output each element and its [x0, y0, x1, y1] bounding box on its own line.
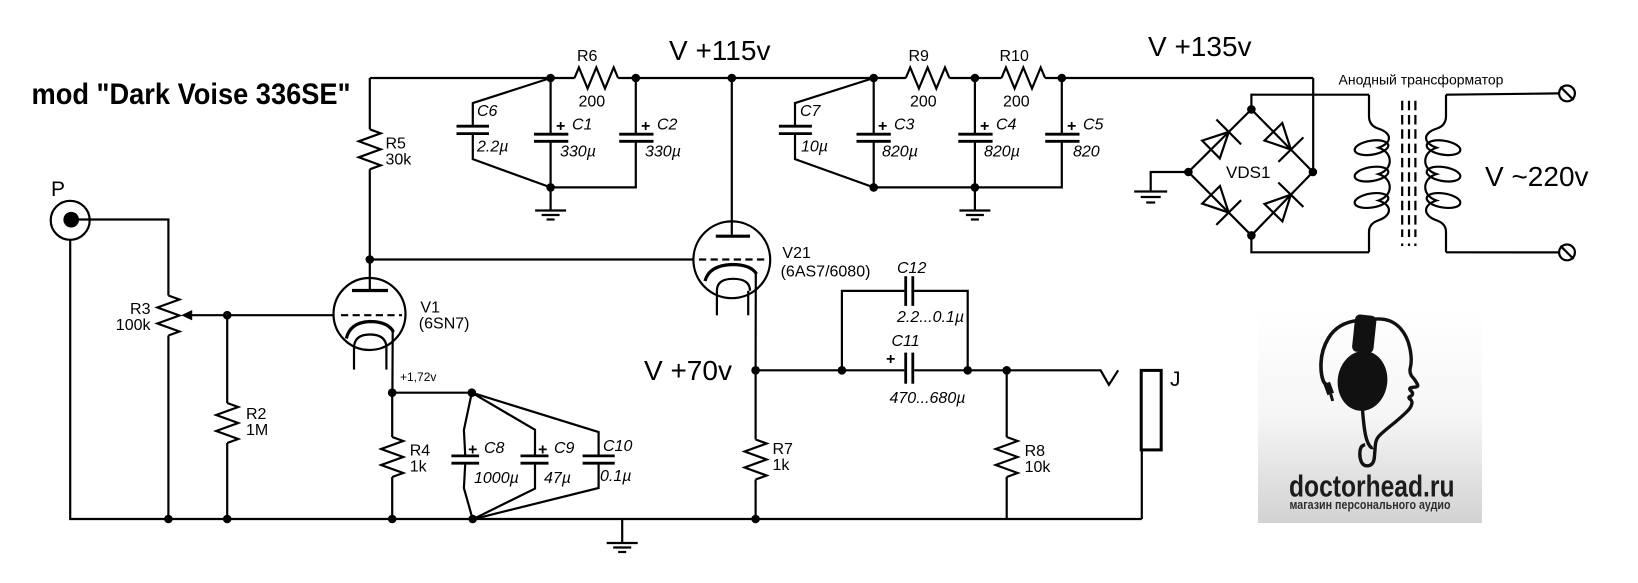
- svg-text:P: P: [51, 178, 65, 201]
- svg-text:C10: C10: [603, 438, 632, 455]
- logo plug: [1327, 383, 1331, 394]
- svg-text:V21: V21: [782, 245, 811, 262]
- svg-text:+1,72v: +1,72v: [400, 370, 436, 384]
- capacitor C9 plates: [521, 456, 549, 463]
- transformer primary petal 1: [1354, 138, 1390, 157]
- node dot V1 cathode: [388, 388, 397, 397]
- resistor R9: [906, 68, 950, 89]
- svg-text:C9: C9: [554, 440, 575, 457]
- wire fan top to C10: [472, 393, 599, 455]
- node dot C3 bottom: [869, 183, 878, 192]
- ground under C1: [549, 187, 551, 210]
- svg-text:C6: C6: [477, 103, 498, 120]
- capacitor C3 plates: [857, 134, 891, 141]
- resistor R5: [359, 129, 381, 169]
- wire R3 bottom to rail: [167, 336, 169, 520]
- wire C3-C4 bottom: [874, 186, 975, 188]
- tube V21 cathode arc: [705, 265, 757, 282]
- svg-text:R10: R10: [1000, 48, 1029, 65]
- logo background: [1258, 308, 1482, 523]
- R3 wiper arrowhead: [181, 310, 192, 320]
- terminal 1: [1559, 86, 1575, 102]
- svg-text:820µ: 820µ: [882, 144, 918, 161]
- svg-text:+: +: [641, 118, 650, 135]
- capacitor C7 stem+slant bottom: [795, 135, 874, 188]
- node dot V+70 R7: [751, 366, 760, 375]
- svg-text:+: +: [556, 118, 565, 135]
- wire bridge left vertex to ground: [1151, 172, 1189, 191]
- svg-text:R2: R2: [246, 406, 267, 423]
- svg-text:R3: R3: [130, 301, 151, 318]
- svg-text:820µ: 820µ: [984, 144, 1020, 161]
- node dot rail-R6 left: [546, 74, 555, 83]
- wire rail up to jack J: [1141, 450, 1143, 519]
- ground under C4: [974, 187, 976, 210]
- tube V1 envelope: [334, 278, 406, 350]
- capacitor C1 plates: [534, 134, 568, 141]
- resistor R2: [216, 403, 238, 443]
- node dot rail R4: [388, 515, 397, 524]
- capacitor C3 leads: [873, 78, 875, 133]
- wire bridge bottom vertex to transformer: [1251, 235, 1369, 252]
- ground at bridge: [1134, 190, 1167, 192]
- svg-text:V ~220v: V ~220v: [1485, 161, 1589, 192]
- svg-text:47µ: 47µ: [544, 470, 571, 487]
- wire V1 cathode lead: [391, 332, 394, 393]
- wire V1 anode lead: [369, 260, 371, 290]
- logo headband pad: [1352, 314, 1377, 354]
- node dot bridge top: [1247, 105, 1256, 114]
- jack J body: [1141, 370, 1161, 450]
- node dot rail-R9 left: [869, 74, 878, 83]
- svg-text:+: +: [538, 442, 547, 459]
- tube V1 heater dome: [354, 335, 386, 349]
- node dot R3 wiper: [223, 311, 232, 320]
- transformer secondary petal 2: [1426, 165, 1462, 184]
- wire fan bottom to C8: [464, 464, 473, 519]
- capacitor C4 leads: [974, 78, 976, 133]
- node dot rail R2: [223, 515, 232, 524]
- capacitor C1 leads: [549, 78, 551, 133]
- svg-text:C2: C2: [657, 117, 678, 134]
- svg-text:330µ: 330µ: [645, 144, 681, 161]
- transformer primary winding: [1369, 95, 1390, 253]
- wire R8 lead: [1006, 370, 1008, 437]
- svg-text:2.2µ: 2.2µ: [476, 139, 508, 156]
- jack P outer circle: [51, 201, 90, 240]
- tube V1 anode bar: [352, 289, 388, 292]
- resistor R3: [157, 296, 179, 336]
- capacitor C12 plates: [906, 276, 913, 306]
- wire wiper node to V1 grid: [227, 314, 333, 316]
- capacitor C5 plates: [1045, 134, 1079, 141]
- capacitor C5 leads: [1061, 78, 1063, 133]
- wire V+70 node line: [756, 369, 905, 371]
- node dot bridge left: [1184, 168, 1193, 177]
- wire R3 wiper: [190, 314, 227, 316]
- transformer core bottom dots: [1401, 244, 1403, 247]
- svg-text:30k: 30k: [386, 152, 413, 169]
- svg-text:+: +: [980, 118, 989, 135]
- svg-text:+: +: [878, 118, 887, 135]
- wire fan top to C8: [464, 393, 472, 455]
- wire P sleeve down to ground rail: [70, 240, 1142, 519]
- tube V1 grid dashed: [341, 314, 402, 316]
- svg-text:R4: R4: [410, 443, 431, 460]
- svg-text:+: +: [1067, 118, 1076, 135]
- node dot rail-R10 right: [1058, 74, 1067, 83]
- svg-text:J: J: [1170, 368, 1181, 391]
- capacitor C2 plates: [619, 134, 653, 141]
- capacitor C6 plates: [457, 126, 490, 133]
- resistor R10: [1002, 68, 1046, 89]
- svg-text:(6AS7/6080): (6AS7/6080): [781, 264, 871, 281]
- svg-text:330µ: 330µ: [560, 144, 596, 161]
- svg-text:C12: C12: [897, 260, 926, 277]
- transformer core dashed lines: [1401, 101, 1403, 237]
- ground on bottom rail: [621, 519, 623, 543]
- transformer secondary winding: [1425, 95, 1446, 253]
- wire fan bottom to C10: [473, 464, 599, 519]
- logo headband cable left: [1321, 321, 1358, 385]
- logo head face outline: [1360, 319, 1418, 466]
- svg-text:C5: C5: [1083, 117, 1104, 134]
- node dot R8 top: [1002, 366, 1011, 375]
- wire V21 cathode lead: [754, 274, 756, 371]
- node dot C11 right: [963, 366, 972, 375]
- transformer secondary petal 1: [1426, 138, 1462, 157]
- node dot C6/C1 bottom: [546, 183, 555, 192]
- svg-text:+: +: [886, 351, 895, 368]
- svg-text:0.1µ: 0.1µ: [600, 468, 631, 485]
- bridge VDS1 diamond: [1188, 109, 1313, 235]
- svg-text:V +115v: V +115v: [669, 35, 770, 66]
- wire V1 anode node to V21 grid: [370, 258, 694, 260]
- wire V21 anode lead from rail: [731, 78, 733, 235]
- logo headphone cord to loop: [1362, 407, 1373, 448]
- tube V21 grid dashed: [699, 258, 765, 260]
- svg-text:R8: R8: [1025, 443, 1046, 460]
- wire top rail V+135 right: [1045, 77, 1313, 79]
- capacitor C7 plates: [779, 126, 812, 133]
- wire R7 top lead: [754, 370, 756, 439]
- svg-text:R9: R9: [909, 48, 930, 65]
- resistor R6: [575, 68, 619, 89]
- svg-text:1000µ: 1000µ: [474, 470, 519, 487]
- resistor R8: [996, 437, 1018, 477]
- tube V21 anode bar: [716, 235, 750, 238]
- svg-text:C3: C3: [894, 117, 915, 134]
- svg-text:V +70v: V +70v: [644, 355, 732, 386]
- svg-text:Анодный трансформатор: Анодный трансформатор: [1339, 72, 1504, 88]
- wire fan top to C9: [472, 393, 535, 455]
- svg-text:V1: V1: [420, 300, 440, 317]
- svg-text:mod "Dark Voise 336SE": mod "Dark Voise 336SE": [32, 78, 351, 111]
- tube V21 heater legs: [716, 291, 718, 316]
- logo ear cup: [1334, 348, 1391, 414]
- node dot rail fan: [468, 515, 477, 524]
- svg-text:10µ: 10µ: [801, 139, 828, 156]
- node dot C4 bottom: [971, 183, 980, 192]
- wire C12 branch: [842, 291, 905, 370]
- node dot bridge right: [1309, 168, 1318, 177]
- wire P to R3 top: [71, 220, 168, 296]
- tube V21 heater dome: [717, 279, 750, 291]
- diode D3 bottom-left: [1202, 186, 1229, 213]
- node dot rail V21 anode: [728, 74, 737, 83]
- svg-text:1k: 1k: [773, 457, 791, 474]
- svg-text:VDS1: VDS1: [1226, 163, 1270, 182]
- wire R2 top lead: [226, 315, 228, 403]
- wire R4 top lead: [391, 393, 393, 437]
- svg-text:10k: 10k: [1025, 459, 1052, 476]
- svg-text:200: 200: [1003, 94, 1030, 111]
- terminal 2: [1559, 245, 1575, 261]
- svg-text:R7: R7: [773, 441, 794, 458]
- wire bridge top vertex to transformer: [1251, 95, 1369, 110]
- wire R2 bottom to rail: [226, 443, 228, 519]
- diode D1 top-left: [1202, 132, 1229, 159]
- svg-text:C7: C7: [800, 103, 822, 120]
- svg-text:200: 200: [910, 94, 937, 111]
- node V output marker: [1101, 370, 1119, 385]
- svg-text:470...680µ: 470...680µ: [890, 390, 966, 407]
- diode D2 top-right: [1265, 123, 1291, 150]
- capacitor C4 plates: [958, 134, 992, 141]
- capacitor C8 plates: [451, 456, 479, 463]
- svg-text:820: 820: [1073, 144, 1100, 161]
- svg-text:R6: R6: [577, 48, 598, 65]
- node dot rail-R6 right: [632, 74, 641, 83]
- transformer primary petal 3: [1354, 191, 1390, 210]
- svg-text:магазин персонального аудио: магазин персонального аудио: [1290, 498, 1451, 512]
- capacitor C11 plates: [906, 353, 913, 384]
- tube V1 heater legs: [353, 348, 355, 370]
- wire R5 bottom to V1 anode node: [369, 169, 371, 259]
- wire R5 top lead from rail: [369, 78, 371, 129]
- node dot bridge bottom: [1247, 231, 1256, 240]
- svg-text:100k: 100k: [116, 317, 152, 334]
- svg-text:+: +: [468, 442, 477, 459]
- svg-text:C11: C11: [892, 333, 920, 350]
- svg-text:1k: 1k: [410, 459, 428, 476]
- capacitor C6 stem+slant bottom: [473, 135, 551, 188]
- wire secondary top to terminal: [1446, 93, 1559, 94]
- transformer secondary petal 3: [1426, 191, 1462, 210]
- diode D4 bottom-right: [1265, 195, 1291, 222]
- transformer primary petal 2: [1354, 165, 1390, 184]
- wire top rail R6 to R9: [618, 77, 906, 79]
- wire secondary bottom to terminal: [1446, 251, 1559, 253]
- wire top rail V+115 left: [370, 77, 575, 79]
- node dot rail R7: [751, 515, 760, 524]
- tube V21 envelope: [693, 221, 770, 298]
- wire R7 bottom to rail: [754, 480, 756, 520]
- node dot C11 left: [838, 366, 847, 375]
- capacitor C10 plates: [583, 456, 615, 463]
- tube V1 cathode arc: [346, 322, 393, 339]
- wire cathode node to fan node: [392, 392, 472, 394]
- capacitor C6 slant+stem top: [473, 78, 551, 126]
- resistor R7: [745, 440, 767, 480]
- svg-text:C4: C4: [996, 117, 1017, 134]
- svg-text:2.2...0.1µ: 2.2...0.1µ: [896, 309, 964, 326]
- wire R4 bottom to rail: [391, 477, 393, 519]
- svg-text:R5: R5: [386, 136, 407, 153]
- node dot V1 anode: [366, 255, 375, 264]
- capacitor C2 leads: [635, 78, 637, 133]
- wire R8 bottom to rail: [1006, 477, 1008, 519]
- wire fan bottom to C9: [473, 464, 535, 519]
- svg-text:200: 200: [579, 94, 606, 111]
- wire V+135 rail drop to bridge: [1312, 78, 1314, 172]
- wire top rail R9 to R10: [949, 77, 1001, 79]
- node dot fan top: [468, 388, 477, 397]
- capacitor C7 slant+stem top: [795, 78, 874, 126]
- resistor R4: [381, 437, 403, 477]
- jack P center pin: [63, 212, 79, 228]
- node dot rail-R9/R10: [971, 74, 980, 83]
- svg-text:C8: C8: [484, 440, 505, 457]
- node dot rail R3: [164, 515, 173, 524]
- svg-text:V +135v: V +135v: [1148, 31, 1252, 62]
- svg-text:(6SN7): (6SN7): [419, 316, 470, 333]
- svg-text:1M: 1M: [246, 422, 268, 439]
- svg-text:C1: C1: [572, 117, 592, 134]
